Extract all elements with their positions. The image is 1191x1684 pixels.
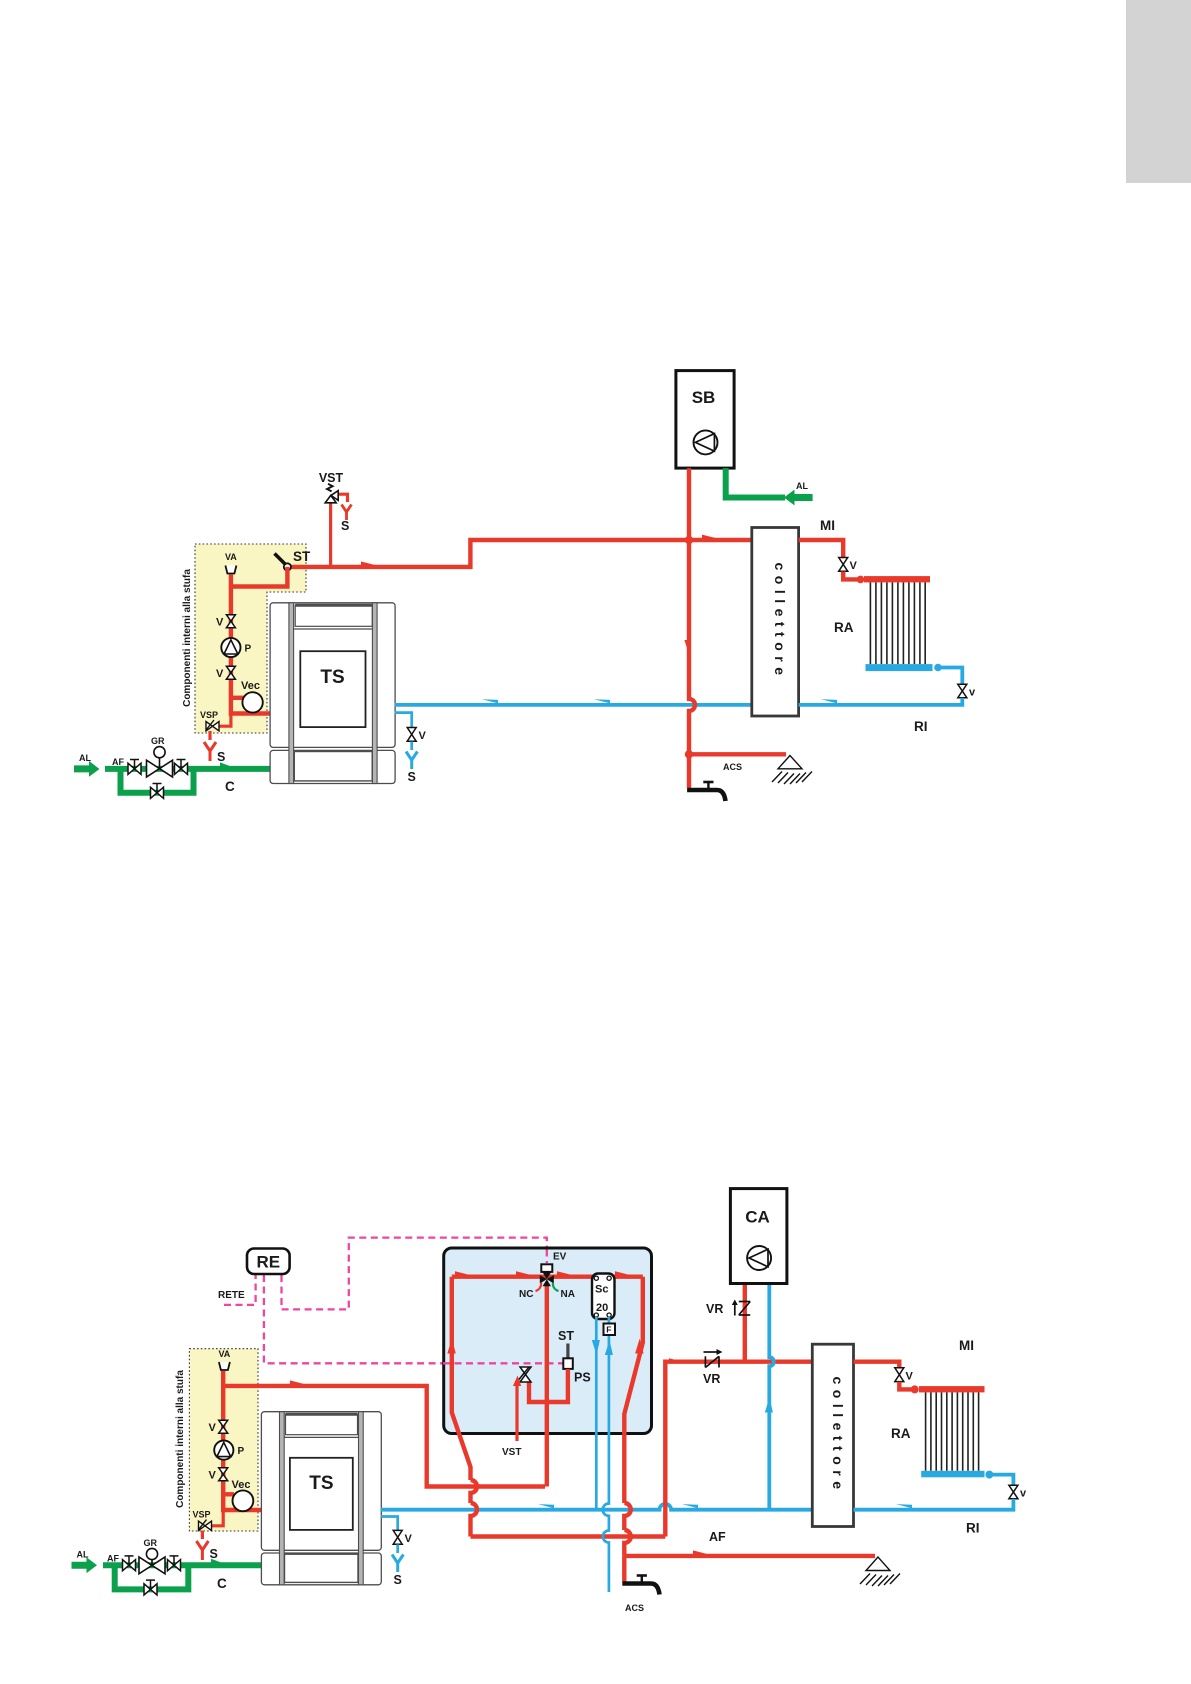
- discharge arrow S (VSP bottom): [196, 1541, 208, 1560]
- wire: VST discharge down: [515, 1383, 518, 1441]
- svg-text:collettore: collettore: [772, 562, 788, 680]
- svg-text:Componenti interni alla stufa: Componenti interni alla stufa: [182, 569, 193, 707]
- wire: module top red line: [452, 1274, 643, 1278]
- svg-text:collettore: collettore: [830, 1376, 846, 1494]
- flow arrow module left leg: [447, 1339, 456, 1354]
- svg-text:AL: AL: [796, 481, 808, 491]
- svg-text:AF: AF: [107, 1554, 119, 1564]
- check valve VR (horizontal): [704, 1352, 720, 1368]
- svg-text:RA: RA: [891, 1426, 911, 1441]
- wire: red below valve to radiator: [843, 572, 858, 580]
- wire: pink dashed RE to EV: [282, 1238, 547, 1310]
- flow arrow red main (bottom): [290, 1380, 305, 1384]
- svg-text:TS: TS: [309, 1473, 333, 1494]
- valve bypass (bottom): [144, 1580, 157, 1595]
- flow arrow on red main near collettore: [702, 535, 717, 539]
- wire: sanitary blue out of Sc (left): [595, 1317, 598, 1510]
- svg-text:MI: MI: [820, 518, 835, 533]
- wire: pink dashed to ST probe (inside module): [443, 1362, 563, 1364]
- wire: ST down-left to VA column: [231, 567, 288, 587]
- wire: MI riser with jump over blue main: [665, 1362, 812, 1537]
- wire: blue below valve: [410, 742, 413, 751]
- wire: VA column down through pump: [231, 575, 271, 714]
- flow arrow riser corner: [669, 1358, 684, 1362]
- wire: lower red cross line to riser: [471, 1534, 666, 1538]
- svg-text:RETE: RETE: [218, 1290, 245, 1301]
- svg-text:ACS: ACS: [723, 762, 742, 772]
- electrovalve EV coil: [541, 1264, 552, 1272]
- flow arrow into VST: [513, 1376, 521, 1387]
- node: tee to sanitary drain line: [624, 1554, 875, 1558]
- radiator RA fins: [870, 582, 925, 664]
- arc NA (green): [553, 1283, 559, 1292]
- junction dot radiator outlet (bottom): [985, 1471, 993, 1479]
- pump inside SB: [694, 430, 718, 454]
- valve V (below pump P): [226, 666, 235, 679]
- wire: module left leg: [452, 1277, 471, 1480]
- stove bottom drawer: [294, 752, 372, 781]
- svg-text:AF: AF: [112, 757, 124, 767]
- svg-text:Componenti interni alla stufa: Componenti interni alla stufa: [175, 1370, 186, 1508]
- pressure reducer GR: [147, 747, 173, 777]
- svg-text:C: C: [225, 779, 235, 794]
- junction dot radiator inlet: [857, 576, 865, 584]
- valve VSP safety (bottom): [199, 1520, 212, 1531]
- svg-text:V: V: [419, 730, 427, 742]
- wire: blue to RI (bottom): [854, 1499, 1014, 1510]
- wire: module right leg: [624, 1277, 643, 1480]
- pump P: [221, 638, 240, 657]
- svg-text:V: V: [405, 1533, 413, 1545]
- svg-text:v: v: [1020, 1488, 1027, 1500]
- discharge arrow S (blue bottom): [392, 1555, 403, 1573]
- svg-text:v: v: [969, 687, 976, 699]
- svg-text:S: S: [394, 1573, 402, 1587]
- valve V (below pump, bottom): [219, 1468, 228, 1481]
- green bypass loop (bottom): [115, 1565, 189, 1589]
- wire: red below valve to radiator (bottom): [899, 1382, 912, 1390]
- flow arrow RI (bottom): [896, 1504, 912, 1508]
- jump: right leg over lower red line: [624, 1530, 631, 1556]
- yellow panel bottom: componenti interni alla stufa: [189, 1349, 258, 1531]
- radiator RA bottom header (bottom): [921, 1471, 984, 1478]
- svg-text:VST: VST: [502, 1447, 521, 1458]
- svg-text:PS: PS: [574, 1371, 591, 1385]
- jump: left leg over blue main: [471, 1503, 478, 1537]
- radiator RA top header (bottom): [919, 1386, 985, 1392]
- valve V (radiator feed bottom): [895, 1368, 904, 1382]
- wire: red main from ST to collettore: [288, 540, 751, 567]
- wire: VSP discharge stub (bottom): [201, 1531, 204, 1540]
- green feed line AL-C: [105, 766, 271, 772]
- collettore manifold (bottom): [812, 1344, 853, 1526]
- wire: red radiator feed (bottom): [854, 1362, 900, 1368]
- expansion vessel Vec: [242, 692, 262, 712]
- svg-text:VR: VR: [706, 1302, 723, 1316]
- jump: left leg over bypass line: [471, 1480, 478, 1503]
- blue drain stub with valve (bottom stove): [381, 1517, 398, 1531]
- valve V (radiator feed): [839, 558, 848, 572]
- flow arrow on green line: [220, 762, 237, 769]
- svg-text:GR: GR: [144, 1538, 158, 1548]
- svg-text:ACS: ACS: [625, 1603, 644, 1613]
- blue return main from stove to collettore: [395, 703, 751, 707]
- wire: EV bypass drop: [545, 1285, 549, 1487]
- collettore manifold (top): [752, 528, 799, 717]
- arc NC (red): [536, 1283, 542, 1292]
- expansion device VA cup (bottom): [219, 1362, 230, 1370]
- svg-text:NA: NA: [561, 1289, 575, 1300]
- blue drain stub with valve V: [395, 713, 412, 727]
- block arrow AL: [74, 761, 100, 777]
- stove side bands (bottom): [280, 1412, 364, 1585]
- svg-text:SB: SB: [692, 388, 716, 407]
- green feed line AL-C (bottom): [103, 1562, 262, 1568]
- svg-text:P: P: [245, 644, 252, 655]
- wire: blue radiator return (bottom): [989, 1475, 1013, 1485]
- svg-text:S: S: [217, 750, 225, 764]
- svg-text:GR: GR: [151, 736, 165, 746]
- svg-text:VA: VA: [225, 552, 237, 562]
- valve V (above pump P): [226, 615, 235, 628]
- flow arrow blue return: [482, 699, 498, 703]
- flow arrow on green (bottom): [211, 1559, 228, 1566]
- jump: right leg over blue main: [624, 1503, 631, 1530]
- radiator RA top header: [864, 576, 930, 582]
- boiler SB: [676, 371, 734, 469]
- pump P (bottom): [214, 1441, 233, 1460]
- radiator RA bottom header: [866, 664, 933, 671]
- probe ST: [275, 554, 292, 571]
- valve V (radiator return bottom): [1009, 1485, 1018, 1498]
- wire: pink dashed RE to ST probe (vertical part): [264, 1275, 443, 1363]
- valve AF (bottom): [123, 1556, 136, 1571]
- svg-text:VA: VA: [218, 1349, 230, 1359]
- blue return main (bottom): [381, 1504, 813, 1510]
- svg-text:Vec: Vec: [232, 1479, 251, 1491]
- grey sidebar tab top-right: [1126, 0, 1191, 183]
- wire: blue radiator return: [938, 668, 962, 685]
- valve V (radiator return): [958, 684, 967, 697]
- wire: pink dashed EV drop (inside module): [546, 1250, 548, 1264]
- heat exchanger Sc 20: [592, 1274, 615, 1320]
- flow arrow sanitary drain line: [693, 1550, 708, 1554]
- drain funnel symbol (bottom): [860, 1557, 900, 1586]
- flow arrow on red main: [361, 562, 376, 566]
- tap ACS: [687, 782, 725, 801]
- controller RE: [247, 1249, 290, 1275]
- stove TS body (bottom): [261, 1412, 381, 1585]
- valve VSP safety: [206, 720, 219, 731]
- valve V (stove drain): [407, 728, 416, 742]
- svg-text:S: S: [341, 519, 349, 533]
- flow arrows module top line: [455, 1271, 470, 1275]
- svg-text:F: F: [606, 1325, 611, 1335]
- stove firebox TS: [300, 651, 365, 727]
- stove top strip (bottom): [286, 1414, 358, 1435]
- stove top strip: [295, 605, 372, 626]
- yellow panel: componenti interni alla stufa: [195, 544, 306, 733]
- flow arrow blue (bottom) 2: [682, 1504, 698, 1508]
- svg-text:RE: RE: [256, 1253, 280, 1272]
- probe well ST/PS: [563, 1344, 573, 1369]
- valve V (above pump, bottom): [219, 1420, 228, 1433]
- stove TS body: [270, 603, 395, 784]
- wire: branch to Vec (bottom): [223, 1492, 234, 1496]
- svg-text:V: V: [209, 1470, 217, 1482]
- svg-text:VST: VST: [319, 471, 344, 485]
- wire: blue CA return with jog over red main: [769, 1284, 774, 1510]
- wire: red to drain funnel: [689, 752, 786, 756]
- wire: VST branch riser: [329, 502, 332, 567]
- svg-text:TS: TS: [320, 667, 344, 688]
- wire: VA column down through pump (bottom): [223, 1371, 262, 1510]
- svg-text:V: V: [216, 617, 224, 629]
- svg-text:20: 20: [596, 1302, 608, 1314]
- svg-text:RI: RI: [966, 1521, 980, 1536]
- expansion device VA cup: [225, 566, 236, 574]
- flow arrow sanitary left: [592, 1340, 600, 1355]
- svg-text:Vec: Vec: [241, 680, 260, 692]
- svg-text:EV: EV: [553, 1252, 567, 1263]
- drain funnel symbol: [772, 756, 812, 785]
- svg-text:RA: RA: [834, 620, 854, 635]
- wire: red riser to CA: [743, 1284, 747, 1362]
- svg-text:AL: AL: [77, 1550, 89, 1560]
- junction dot SB/main: [685, 536, 693, 544]
- flow arrow blue (bottom) 1: [538, 1504, 554, 1508]
- flow arrow RI: [821, 699, 837, 703]
- valve (right of GR): [175, 760, 188, 775]
- wire: sanitary blue out of Sc (right) with jogs: [603, 1317, 609, 1592]
- svg-text:C: C: [217, 1576, 227, 1591]
- stove middle frame line (bottom): [284, 1436, 358, 1438]
- junction dot radiator inlet (bottom): [911, 1385, 919, 1393]
- svg-text:VSP: VSP: [193, 1510, 211, 1520]
- svg-text:ST: ST: [558, 1329, 574, 1343]
- wire: red U from PS well to VST valve: [529, 1369, 568, 1402]
- net RETE dashed link: [224, 1275, 256, 1305]
- block arrow AL (to SB): [784, 490, 813, 506]
- svg-text:V: V: [906, 1371, 914, 1383]
- svg-text:NC: NC: [519, 1289, 533, 1300]
- junction dot radiator outlet: [934, 664, 942, 672]
- node ACS junction: [685, 750, 693, 758]
- svg-text:S: S: [210, 1547, 218, 1561]
- flow arrow blue return 2: [594, 699, 610, 703]
- svg-text:RI: RI: [914, 719, 928, 734]
- expansion vessel Vec (bottom): [233, 1490, 254, 1511]
- stove firebox TS (bottom): [290, 1458, 353, 1530]
- valve right of GR (bottom): [168, 1556, 181, 1571]
- pump inside CA: [747, 1246, 771, 1270]
- discharge arrow S (blue): [406, 752, 417, 770]
- valve VST safety: [325, 484, 338, 503]
- svg-text:S: S: [408, 770, 416, 784]
- wire: branch to expansion vessel Vec: [231, 696, 244, 700]
- wire: red main stove supply to bypass corner: [223, 1386, 545, 1487]
- stove side bands: [289, 603, 377, 784]
- svg-text:V: V: [850, 560, 858, 572]
- svg-text:VR: VR: [703, 1372, 720, 1386]
- green line from SB to AL arrow: [726, 468, 785, 497]
- flow arrow CA return up: [765, 1398, 773, 1413]
- flow arrow sanitary right: [605, 1340, 613, 1355]
- boiler CA: [730, 1189, 787, 1284]
- wire: VSP discharge stub: [208, 731, 211, 740]
- wire: branch to VSP (bottom): [209, 1508, 223, 1526]
- stove bottom drawer (bottom): [285, 1554, 359, 1582]
- svg-text:CA: CA: [745, 1208, 770, 1227]
- svg-text:AF: AF: [709, 1530, 726, 1544]
- wire: blue below valve (bottom): [396, 1544, 399, 1553]
- svg-text:V: V: [216, 668, 224, 680]
- svg-text:MI: MI: [959, 1338, 974, 1353]
- valve AF: [128, 760, 141, 775]
- electrovalve EV 3-way body: [540, 1272, 554, 1286]
- svg-text:ST: ST: [293, 549, 311, 564]
- discharge arrow S (VST): [342, 505, 352, 521]
- wire: branch to safety valve VSP: [216, 712, 231, 726]
- pressure reducer GR (bottom): [139, 1548, 165, 1573]
- check valve VR (vertical): [735, 1302, 750, 1316]
- wire: red down to tap (bottom): [622, 1556, 626, 1582]
- valve VST (module): [519, 1367, 532, 1382]
- flow arrow down on SB line: [684, 640, 689, 655]
- radiator RA fins (bottom): [926, 1392, 979, 1470]
- discharge arrow S (VSP): [204, 742, 216, 761]
- wire: red down to tap: [687, 754, 691, 788]
- svg-text:P: P: [238, 1446, 245, 1457]
- flow switch F: [604, 1324, 616, 1336]
- svg-text:AL: AL: [79, 753, 91, 763]
- stove middle frame line: [294, 628, 373, 630]
- svg-text:Sc: Sc: [595, 1284, 608, 1296]
- tap ACS (bottom): [622, 1576, 659, 1595]
- block arrow AL (bottom): [72, 1557, 98, 1573]
- wire: red radiator feed: [799, 540, 844, 557]
- green bypass loop: [121, 769, 194, 793]
- wire: red from SB down across blue to ACS node: [689, 468, 695, 754]
- wire: VST discharge elbow: [337, 494, 348, 502]
- heat exchange module box (light blue): [444, 1248, 652, 1434]
- svg-text:V: V: [209, 1422, 217, 1434]
- valve V (stove drain bottom): [393, 1530, 402, 1544]
- wire: blue return to collettore RI: [799, 698, 963, 705]
- svg-text:VSP: VSP: [200, 710, 218, 720]
- valve (bypass): [151, 784, 164, 799]
- flow arrow module right leg: [635, 1339, 644, 1354]
